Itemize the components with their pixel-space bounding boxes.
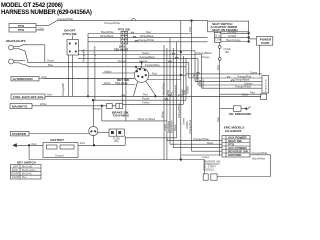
svg-text:Pink: Pink [188,26,192,32]
svg-text:LIGHT: LIGHT [12,175,20,179]
svg-text:Orange/White: Orange/White [104,21,121,25]
svg-text:START: START [11,172,20,176]
svg-text:Orange/White: Orange/White [252,151,269,155]
svg-text:MODULE 1A: MODULE 1A [264,79,267,92]
svg-text:M+G+A1: M+G+A1 [22,165,33,169]
svg-text:725-04257: 725-04257 [114,48,129,52]
svg-text:Blue/White: Blue/White [162,82,166,95]
svg-text:ALTERNATOR: ALTERNATOR [13,77,34,81]
svg-text:Orange: Orange [92,106,101,110]
svg-text:MODEL GT 2542 (2006): MODEL GT 2542 (2006) [1,3,63,9]
svg-text:OIL PRESSURE: OIL PRESSURE [229,112,251,116]
svg-text:Orange: Orange [201,55,210,59]
svg-text:Red: Red [42,75,47,79]
svg-text:GROUND: GROUND [228,153,242,157]
svg-text:Black: Black [173,124,177,131]
svg-text:15A: 15A [225,50,230,54]
svg-text:Purple/White: Purple/White [145,63,160,67]
svg-text:STARTER: STARTER [12,132,27,136]
svg-text:Red: Red [216,117,220,122]
svg-text:Black: Black [242,93,249,97]
svg-text:White/Black: White/Black [100,34,114,38]
svg-text:Green: Green [250,70,258,74]
svg-text:Orange/White: Orange/White [138,38,155,42]
svg-text:Orange/White: Orange/White [93,45,97,62]
svg-text:MAGNETO: MAGNETO [12,105,28,109]
svg-text:Ground: Ground [55,154,64,158]
svg-text:White: White [160,111,164,118]
svg-text:COM: COM [215,38,221,42]
svg-text:White: White [104,81,111,85]
svg-text:Or/Wht: Or/Wht [228,34,236,38]
svg-text:Orange/Blk: Orange/Blk [82,48,86,62]
svg-text:Or/Blk: Or/Blk [198,79,202,87]
svg-text:Blue/White: Blue/White [253,157,266,161]
svg-text:725-1741: 725-1741 [115,81,128,85]
svg-text:Blue: Blue [48,63,54,67]
svg-text:OFF: OFF [13,165,19,169]
svg-text:B+S+A1: B+S+A1 [22,172,32,176]
svg-text:B+L: B+L [22,175,27,179]
svg-text:Red: Red [143,93,148,97]
svg-text:Yellow: Yellow [142,101,150,105]
svg-text:COIL: COIL [38,26,45,30]
svg-text:Pink: Pink [166,89,170,95]
svg-text:Orange/White: Orange/White [235,85,252,89]
svg-text:Green: Green [181,117,185,125]
svg-text:Orange/Red: Orange/Red [188,119,192,134]
svg-text:Orange/White: Orange/White [193,137,210,141]
svg-text:White: White [40,102,47,106]
svg-text:Yellow: Yellow [104,69,112,73]
svg-text:(PTO) SW.: (PTO) SW. [63,32,78,36]
svg-text:B+A1+A2+L: B+A1+A2+L [22,168,37,172]
svg-text:20A: 20A [114,139,119,143]
svg-text:Red: Red [80,141,85,145]
svg-text:PTO: PTO [18,28,25,32]
svg-text:Orange: Orange [139,59,148,63]
svg-text:Orange: Orange [118,59,127,63]
svg-text:White/Black: White/Black [140,34,154,38]
svg-text:Orange/Blk: Orange/Blk [61,82,65,96]
svg-text:BATTERY: BATTERY [51,138,65,142]
svg-text:Red/White: Red/White [173,84,177,97]
svg-text:Black: Black [207,141,214,145]
svg-text:Red: Red [216,65,220,70]
svg-text:Green: Green [47,59,55,63]
svg-text:Red: Red [32,142,37,146]
svg-text:KEY SWITCH: KEY SWITCH [17,161,36,165]
svg-text:N.O.: N.O. [215,33,221,37]
svg-text:Red: Red [47,93,52,97]
svg-text:RUN: RUN [12,168,18,172]
svg-text:FUEL SHUT-OFF SOL.: FUEL SHUT-OFF SOL. [13,95,45,99]
svg-text:HEADLIGHTS: HEADLIGHTS [6,39,26,43]
svg-text:Orange/White: Orange/White [57,17,74,21]
svg-text:Or/Wht: Or/Wht [185,86,189,94]
svg-text:Green: Green [202,155,210,159]
svg-text:Green: Green [142,51,150,55]
svg-text:Red: Red [250,91,255,95]
svg-text:Orange/Black: Orange/Black [234,78,250,82]
svg-text:725-04363A: 725-04363A [113,114,130,118]
svg-text:Red: Red [170,92,174,97]
svg-text:HARNESS NUMBER (629-04156A): HARNESS NUMBER (629-04156A) [1,10,92,16]
svg-text:Red: Red [146,30,151,34]
svg-text:Red: Red [152,72,157,76]
svg-text:Orange/Black: Orange/Black [139,55,155,59]
svg-text:MODELS: MODELS [203,167,214,171]
svg-text:Blue/White: Blue/White [101,30,114,34]
svg-text:Or/Wht: Or/Wht [228,30,236,34]
svg-text:PTO SW.: PTO SW. [118,28,131,32]
svg-text:Yellow/White: Yellow/White [177,103,181,118]
svg-text:CH-942/978: CH-942/978 [225,129,242,133]
svg-text:Blue/Orange: Blue/Orange [226,38,241,42]
svg-text:Orange/Black: Orange/Black [196,51,212,55]
svg-text:Purple: Purple [142,97,150,101]
svg-text:White on Black: White on Black [138,117,156,121]
svg-text:PORT: PORT [261,41,270,45]
